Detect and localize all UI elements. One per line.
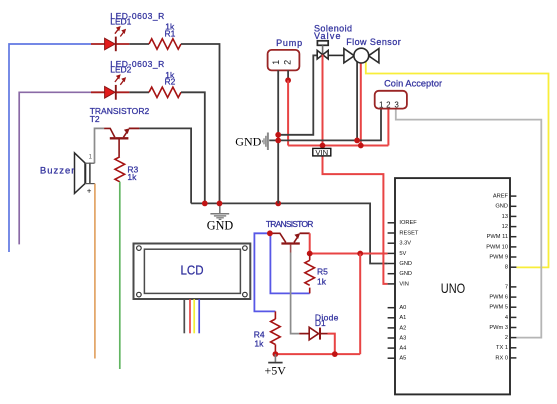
svg-text:GND: GND xyxy=(399,261,412,267)
resistor R3 xyxy=(115,157,125,182)
transistor T2 xyxy=(104,128,139,157)
wire red coin pin2 xyxy=(387,109,389,146)
VIN net label box xyxy=(313,148,331,157)
svg-text:A2: A2 xyxy=(399,325,406,331)
svg-text:Buzzer: Buzzer xyxy=(40,166,75,177)
svg-text:Valve: Valve xyxy=(314,31,341,41)
UNO right pin labels xyxy=(486,194,508,362)
wire yellow flow sensor to UNO pin 8 xyxy=(366,59,549,268)
LCD wire gray xyxy=(183,299,185,333)
svg-text:LCD: LCD xyxy=(181,262,204,277)
wire LED1 to R1 xyxy=(129,43,149,45)
wire red at valve center xyxy=(322,55,324,62)
resistor R4 xyxy=(271,311,281,354)
pump pin2 stub xyxy=(287,70,289,80)
svg-text:VIN: VIN xyxy=(315,148,328,157)
ground symbol (rail) xyxy=(207,203,234,232)
svg-text:RX 0: RX 0 xyxy=(495,355,508,361)
svg-text:3.3V: 3.3V xyxy=(399,241,411,247)
wire red diode cathode to +5V rail xyxy=(328,334,335,355)
GND rail wire xyxy=(191,203,388,263)
junction dot R4/+5V xyxy=(273,351,279,357)
wire pump pin1 to GND rail xyxy=(277,70,279,203)
red VCC rail (top) xyxy=(288,145,388,147)
svg-text:TRANSISTOR: TRANSISTOR xyxy=(266,219,314,229)
svg-text:A4: A4 xyxy=(399,346,406,352)
wire flow sensor pin1 dark xyxy=(356,60,358,141)
svg-text:PWM 5: PWM 5 xyxy=(489,305,508,311)
svg-text:12: 12 xyxy=(502,224,508,230)
junction dot pump1/rail xyxy=(275,201,281,207)
wire gray coin pin3 to UNO pin 2 xyxy=(396,109,542,338)
svg-text:1k: 1k xyxy=(127,172,137,182)
svg-text:GND: GND xyxy=(399,271,412,277)
LED D2 (LED2) xyxy=(91,74,129,99)
wire valve to flow sensor xyxy=(328,54,344,56)
svg-text:1: 1 xyxy=(89,155,93,161)
pump P1 xyxy=(268,50,300,71)
junction dot valve-left/pump1 xyxy=(275,132,281,138)
svg-text:Flow Sensor: Flow Sensor xyxy=(346,37,401,47)
svg-text:8: 8 xyxy=(505,265,508,271)
wire orange from buzzer xyxy=(94,184,96,359)
junction dot R1/rail xyxy=(217,201,223,207)
junction dot valve-red/vcc xyxy=(320,143,326,149)
junction dot flow-red/vcc xyxy=(358,143,364,149)
svg-text:1k: 1k xyxy=(317,276,327,286)
svg-text:2: 2 xyxy=(282,60,292,65)
junction dot emitter/5V rail xyxy=(307,251,313,257)
wire red solenoid valve to VIN xyxy=(323,55,388,284)
svg-text:A3: A3 xyxy=(399,335,406,341)
svg-text:R2: R2 xyxy=(165,77,176,87)
svg-text:GND: GND xyxy=(207,218,234,232)
svg-text:AREF: AREF xyxy=(493,194,509,200)
wire red down to +5V bottom rail xyxy=(359,254,361,355)
wire blue transistor to R5 bottom xyxy=(270,233,309,293)
UNO left pin stubs xyxy=(388,223,395,358)
UNO right pin stubs xyxy=(510,196,516,358)
svg-text:A0: A0 xyxy=(399,305,406,311)
flow sensor FS1 xyxy=(344,48,379,63)
svg-text:TX 1: TX 1 xyxy=(496,345,508,351)
svg-text:PWM 6: PWM 6 xyxy=(489,295,508,301)
svg-text:2: 2 xyxy=(505,335,508,341)
svg-text:R5: R5 xyxy=(317,267,328,277)
buzzer BZ1 xyxy=(75,153,95,196)
junction dot 5V rail/down wire xyxy=(357,251,363,257)
svg-text:PWM 11: PWM 11 xyxy=(487,234,508,240)
wire red emitter down to 5V rail xyxy=(309,233,311,253)
transistor T1 xyxy=(271,233,310,252)
resistor R2 xyxy=(149,87,181,97)
wire T2 emitter to GND rail xyxy=(139,128,191,203)
wire valve left pin xyxy=(278,55,317,134)
svg-text:1: 1 xyxy=(379,101,384,110)
junction dot transistor collector xyxy=(267,230,273,236)
LCD module xyxy=(134,244,251,300)
svg-text:IOREF: IOREF xyxy=(399,220,417,226)
svg-text:LED2: LED2 xyxy=(110,65,131,75)
coin acceptor CA1 xyxy=(375,91,407,110)
GND symbol (left rotated) xyxy=(235,133,268,151)
svg-text:GND: GND xyxy=(495,204,508,210)
wire R2 to GND rail xyxy=(181,92,205,203)
junction dot pump2 xyxy=(285,77,291,83)
wire blue from LED1 xyxy=(9,44,91,252)
svg-text:RESET: RESET xyxy=(399,230,418,236)
red +5V bottom rail xyxy=(275,353,360,355)
wire gray base to diode xyxy=(291,253,300,334)
LCD wire red xyxy=(189,299,191,333)
svg-text:T2: T2 xyxy=(90,114,100,124)
svg-text:13: 13 xyxy=(502,214,508,220)
svg-text:3: 3 xyxy=(394,101,399,110)
resistor R5 xyxy=(305,254,315,294)
wire flow sensor pin2 red xyxy=(360,61,362,146)
diode D1 xyxy=(299,327,327,340)
svg-text:7: 7 xyxy=(505,284,508,290)
red 5V rail to UNO xyxy=(310,253,388,255)
svg-text:VIN: VIN xyxy=(399,281,408,287)
svg-text:+5V: +5V xyxy=(264,363,286,377)
svg-text:Pump: Pump xyxy=(276,38,302,48)
svg-text:PWm 3: PWm 3 xyxy=(489,325,508,331)
wire R1 to GND rail xyxy=(181,44,220,203)
wire green from R3 xyxy=(119,182,121,369)
wire gray buzzer pin1 to T2 collector xyxy=(95,128,105,163)
svg-text:LED1: LED1 xyxy=(110,16,131,26)
LCD wire blue xyxy=(198,299,200,333)
UNO left pin labels xyxy=(399,220,418,361)
wire LED2 to R2 xyxy=(129,91,149,93)
svg-text:+: + xyxy=(87,187,92,196)
svg-text:2: 2 xyxy=(386,101,391,110)
+5V supply symbol xyxy=(264,354,286,377)
svg-text:GND: GND xyxy=(235,134,261,148)
junction dot diode/+5V rail xyxy=(332,351,338,357)
svg-text:UNO: UNO xyxy=(441,281,466,296)
wire red pump pin2 down xyxy=(287,80,289,145)
junction dot R2/rail xyxy=(202,201,208,207)
wire blue transistor to R4 xyxy=(254,233,275,311)
UNO board xyxy=(395,178,510,394)
svg-text:Coin Acceptor: Coin Acceptor xyxy=(384,79,442,89)
svg-text:PWM 10: PWM 10 xyxy=(486,244,508,250)
svg-text:PWM 9: PWM 9 xyxy=(489,254,508,260)
resistor R1 xyxy=(149,39,181,49)
svg-text:4: 4 xyxy=(505,315,508,321)
svg-text:R1: R1 xyxy=(165,28,176,38)
LED D1 (LED1) xyxy=(91,26,129,51)
svg-text:A5: A5 xyxy=(399,356,406,362)
GND wire to coin pin1 xyxy=(269,109,381,141)
svg-text:1: 1 xyxy=(271,60,281,65)
svg-text:D1: D1 xyxy=(315,318,326,328)
junction dot flow1/gnd xyxy=(354,138,360,144)
solenoid valve V1 xyxy=(317,41,328,59)
wire purple from LED2 xyxy=(19,92,91,244)
svg-text:1k: 1k xyxy=(254,338,264,348)
junction dot gnd-rail/pump1 xyxy=(275,138,281,144)
LCD wire yellow xyxy=(193,299,195,333)
svg-text:A1: A1 xyxy=(399,315,406,321)
svg-text:5V: 5V xyxy=(399,251,406,257)
